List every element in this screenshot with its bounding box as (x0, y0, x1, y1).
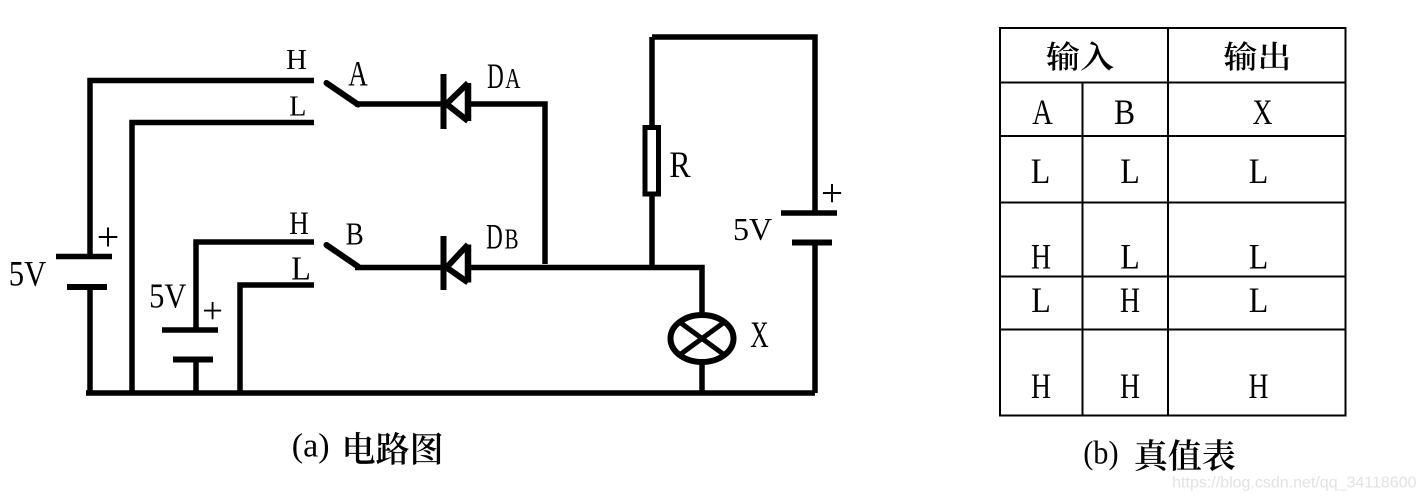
svg-text:D: D (487, 56, 504, 96)
svg-text:H: H (1120, 281, 1140, 320)
svg-text:X: X (1252, 93, 1272, 132)
svg-text:L: L (1120, 153, 1140, 192)
svg-text:A: A (1032, 92, 1052, 132)
svg-text:L: L (291, 250, 311, 288)
svg-text:L: L (1249, 153, 1269, 192)
svg-text:A: A (348, 54, 368, 93)
svg-text:https://blog.csdn.net/qq_34118: https://blog.csdn.net/qq_34118600 (1172, 475, 1416, 492)
svg-text:L: L (1249, 238, 1269, 277)
svg-text:L: L (1249, 282, 1269, 321)
svg-text:H: H (1031, 237, 1051, 276)
svg-text:H: H (289, 204, 309, 241)
svg-text:R: R (669, 145, 690, 186)
svg-text:B: B (346, 218, 364, 252)
svg-text:B: B (1114, 93, 1135, 132)
svg-text:H: H (1031, 367, 1051, 406)
svg-text:D: D (486, 216, 503, 256)
svg-text:H: H (1248, 367, 1268, 406)
svg-text:5V: 5V (9, 254, 46, 294)
svg-text:+: + (821, 172, 843, 215)
svg-text:L: L (289, 91, 306, 122)
svg-text:B: B (504, 225, 518, 256)
svg-text:A: A (505, 64, 520, 95)
svg-text:L: L (1031, 153, 1051, 192)
svg-text:(b): (b) (1083, 434, 1118, 470)
svg-text:X: X (750, 313, 768, 355)
svg-text:+: + (202, 291, 223, 332)
svg-text:L: L (1031, 282, 1051, 321)
svg-text:5V: 5V (733, 211, 772, 247)
svg-text:+: + (97, 215, 120, 260)
svg-text:H: H (1120, 367, 1140, 406)
svg-text:H: H (286, 44, 307, 76)
svg-text:(a): (a) (292, 428, 330, 465)
svg-text:L: L (1120, 238, 1140, 277)
svg-text:5V: 5V (149, 278, 186, 316)
